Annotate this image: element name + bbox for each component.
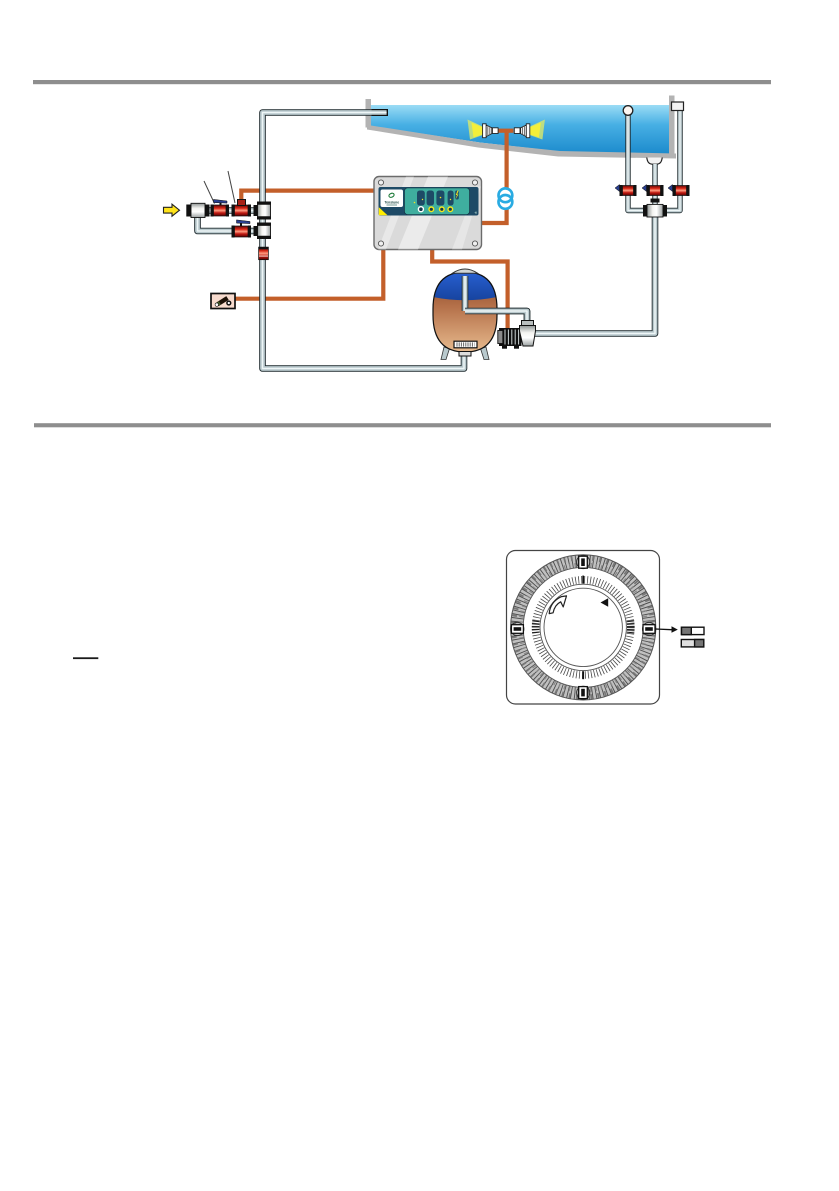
- svg-text:Tensiune: Tensiune: [384, 200, 399, 204]
